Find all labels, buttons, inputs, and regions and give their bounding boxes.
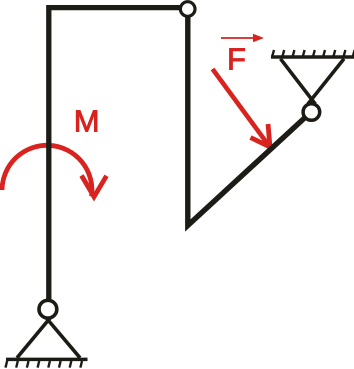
force arrowhead — [251, 124, 271, 147]
vector overline arrow of F — [221, 37, 256, 39]
svg-text:M: M — [74, 104, 100, 139]
top-right support hatching — [272, 50, 354, 56]
frame: top horizontal bar and left vertical bar — [49, 8, 180, 299]
pin joint circle top — [180, 2, 195, 17]
bottom-left support triangle — [17, 315, 80, 358]
bottom-left support ground line — [6, 358, 88, 362]
moment arc M — [2, 145, 92, 196]
top-right support ceiling line — [271, 55, 354, 59]
bottom-left support hatching — [6, 361, 83, 368]
pin circle bottom-left support — [39, 300, 57, 318]
top-right support triangle — [281, 59, 345, 105]
pin circle top-right support — [303, 104, 320, 121]
moment arrowhead — [82, 176, 107, 197]
svg-text:F: F — [227, 42, 246, 77]
frame: right vertical bar and diagonal bar — [188, 17, 304, 226]
force arrow F — [213, 69, 270, 147]
